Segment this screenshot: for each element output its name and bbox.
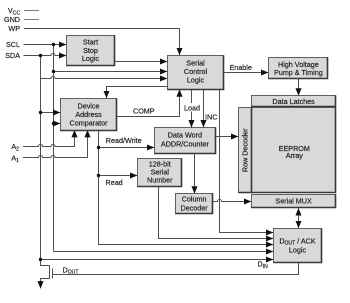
wire Start Stop Logic to Serial Control Logic [115,61,168,63]
svg-text:Data Latches: Data Latches [272,97,315,106]
pin labels [4,6,20,164]
node SCL/startstop junction [52,43,55,46]
svg-text:Column: Column [182,195,207,204]
block Data Word ADDR/Counter [155,128,216,154]
wire SCL vertical bus [53,45,55,252]
block Row Decoder [239,108,252,193]
block Start Stop Logic [67,36,115,66]
svg-text:Enable: Enable [230,63,252,72]
svg-text:Logic: Logic [82,54,100,63]
box shadows (bottom/right darker edges) [61,36,336,263]
svg-text:Read: Read [106,178,123,187]
node read junction [97,174,100,177]
pin GND stub [24,19,39,21]
svg-text:Data Word: Data Word [168,130,202,139]
svg-text:WP: WP [8,24,20,33]
wire COMP comparator to Serial Control Logic bottom [117,90,180,117]
wire Data Word drop to Column Decoder [194,154,196,194]
svg-text:Serial MUX: Serial MUX [275,196,312,205]
wire Load Serial Control to Data Word [191,90,193,128]
svg-text:Pump & Timing: Pump & Timing [274,68,323,77]
wire Column Decoder to Serial MUX (hop over drop line) [213,199,252,201]
wire Serial Number drop to Dout/ACK logic (line 2) [159,187,274,239]
svg-text:A2: A2 [11,142,19,152]
node SCL/comparator junction [52,122,55,125]
svg-text:Logic: Logic [187,75,205,84]
svg-text:Comparator: Comparator [70,118,109,127]
node SCL/serialctl junction [52,70,55,73]
wire SDA to Start Stop Logic (hop over SCL drop) [24,53,67,55]
block Serial Control Logic [168,56,224,90]
svg-text:Number: Number [147,175,173,184]
svg-text:Row Decoder: Row Decoder [240,128,249,172]
svg-text:COMP: COMP [133,107,155,116]
block Dout/ACK Logic [274,229,322,263]
wire Read/Write to Data Word [99,147,155,149]
wire SCL to Start Stop Logic [24,44,67,46]
wire Serial Control Logic to Device Address Comparator [107,87,168,99]
svg-text:DIN: DIN [258,260,269,270]
wire SDA branch to comparator [41,112,61,114]
wire SDA vertical bus [40,56,42,266]
wire Read to 128-bit Serial Number [99,175,138,177]
svg-text:ADDR/Counter: ADDR/Counter [161,139,210,148]
block Column Decoder [176,194,213,214]
wire High Voltage to Data Latches [298,79,300,96]
wire A2 into comparator bottom [23,130,75,146]
junction dots [39,43,100,261]
block Data Latches [252,96,336,107]
svg-text:SCL: SCL [6,40,20,49]
svg-text:DOUT: DOUT [63,265,79,275]
wire WP to Serial Control Logic top [24,29,180,56]
wire Serial Control drop to Dout/ACK logic (line 1) [220,90,274,233]
block High Voltage Pump & Timing [269,58,328,79]
svg-text:INC: INC [205,112,217,121]
wire labels [63,63,269,276]
wire Serial MUX to Dout/ACK double arrow [298,208,300,218]
wire Data Word to Row Decoder [216,136,239,138]
node SDA/comparator junction [39,111,42,114]
transistor Q1 channel bar [49,266,51,279]
wire Din SDA to Dout/ACK logic (line 5) [41,259,274,261]
wire comparator bottom drop to Dout/ACK logic (line 3) [99,131,274,245]
transistor Q1 drain lead from SDA [41,260,50,266]
node Din junction [39,258,42,261]
pin Vcc stub [24,10,39,12]
node read/write junction [97,146,100,149]
wire SDA branch to Serial Control Logic (hop over SCL bus) [41,76,168,78]
boxes [61,36,336,263]
transistor Q1 source lead to ground arrow [41,279,50,289]
svg-text:Decoder: Decoder [181,203,209,212]
label Load (white backed) [184,103,201,112]
wire SCL branch to comparator [54,123,61,125]
block 128-bit Serial Number [138,159,182,187]
wire SCL bus to Dout/ACK logic (line 4) [54,251,274,253]
svg-text:A1: A1 [11,154,19,164]
node SDA/startstop junction [39,54,42,57]
svg-text:Load: Load [184,103,200,112]
svg-text:GND: GND [4,15,20,24]
block EEPROM Array [252,108,336,193]
svg-text:SDA: SDA [5,51,20,60]
svg-text:Read/Write: Read/Write [106,136,142,145]
wire Dout return from logic to transistor gate [53,263,299,275]
wire INC Serial Control to Data Word [203,90,205,128]
transistor Q1 gate bar [52,269,54,279]
box texts [70,38,323,255]
wire A1 into comparator bottom [23,130,88,157]
block Serial MUX [252,195,336,208]
block Device Address Comparator [61,99,117,131]
wire SCL branch to Serial Control Logic [54,71,168,73]
svg-text:Array: Array [286,151,304,160]
wire Enable to High Voltage box [224,72,269,74]
svg-text:Logic: Logic [289,246,307,255]
